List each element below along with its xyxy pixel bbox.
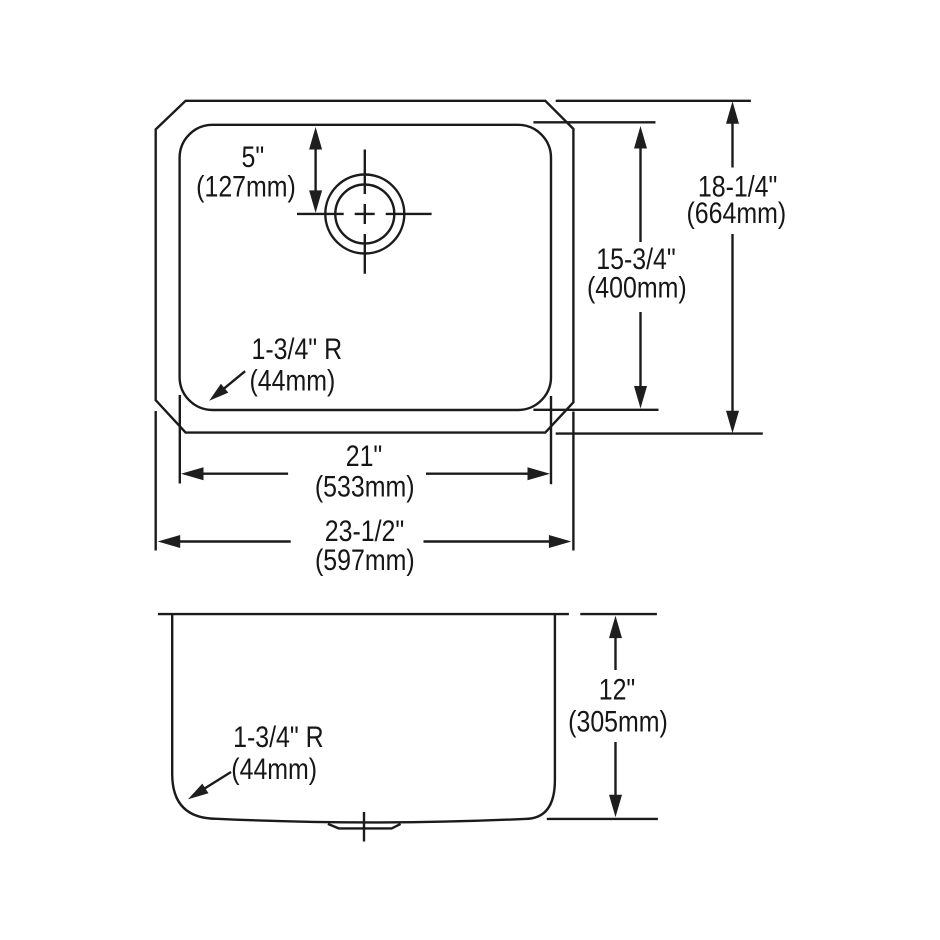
dim 23-1/2" extension left xyxy=(154,411,156,551)
dim 21" extension left xyxy=(179,395,181,484)
leader arrow 1-3/4"R plan xyxy=(222,371,245,390)
svg-text:1-3/4" R: 1-3/4" R xyxy=(252,332,343,365)
dim 21" extension right xyxy=(550,396,552,484)
svg-text:(597mm): (597mm) xyxy=(315,543,415,576)
dim 18-1/4" extension bottom xyxy=(556,432,763,434)
sink bowl inner rounded rectangle (plan view) xyxy=(180,125,551,410)
svg-text:(664mm): (664mm) xyxy=(686,196,786,229)
svg-text:(44mm): (44mm) xyxy=(231,752,317,785)
sink outer rim (plan view octagon) xyxy=(156,101,574,433)
drain outer circle xyxy=(325,175,404,254)
dim 23-1/2" line xyxy=(179,540,550,542)
svg-text:5": 5" xyxy=(242,140,265,173)
dim 5" line xyxy=(314,149,316,193)
drain inner circle xyxy=(335,185,394,244)
dim 12" extension bottom xyxy=(547,818,658,820)
dim 5" arrow down xyxy=(309,190,322,213)
dim 15-3/4" extension bottom xyxy=(533,409,658,411)
drain centerline horizontal xyxy=(297,213,432,215)
side view rim line xyxy=(158,613,569,615)
svg-text:(127mm): (127mm) xyxy=(196,169,296,202)
dim 21" line xyxy=(203,473,529,475)
leader arrow 1-3/4"R side xyxy=(203,772,231,790)
svg-text:12": 12" xyxy=(599,672,636,705)
svg-text:(305mm): (305mm) xyxy=(568,704,668,737)
drain centerline vertical xyxy=(364,150,366,274)
side view bowl outline xyxy=(172,614,555,822)
svg-text:21": 21" xyxy=(346,439,383,472)
side view drain centerline xyxy=(363,812,365,842)
svg-text:(533mm): (533mm) xyxy=(315,469,415,502)
dim 12" line xyxy=(614,638,616,797)
dim 12" extension top xyxy=(580,613,657,615)
svg-text:(44mm): (44mm) xyxy=(249,364,335,397)
side view drain fitting xyxy=(328,824,401,829)
svg-text:(400mm): (400mm) xyxy=(587,270,687,303)
dim 18-1/4" extension top xyxy=(556,100,751,102)
dim 5" arrow up xyxy=(309,127,322,150)
dim 15-3/4" extension top xyxy=(533,121,655,123)
dim 15-3/4" line xyxy=(639,148,641,387)
dim 18-1/4" line xyxy=(731,123,733,413)
dim 23-1/2" extension right xyxy=(572,412,574,551)
svg-text:1-3/4" R: 1-3/4" R xyxy=(233,720,324,753)
